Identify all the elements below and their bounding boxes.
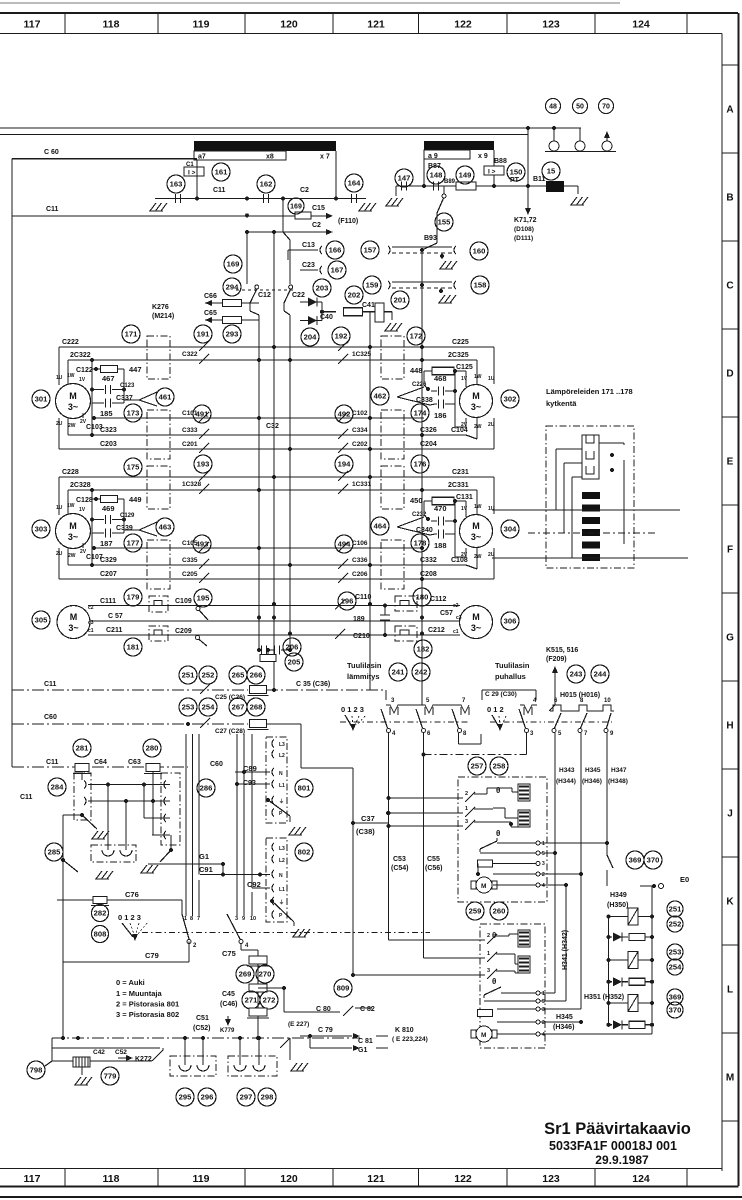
thermal steps <box>586 435 594 443</box>
circled ref 172 <box>407 327 425 345</box>
svg-text:F: F <box>727 545 733 556</box>
winding stem <box>184 1038 186 1065</box>
hook 801 E <box>272 796 274 804</box>
svg-text:C11: C11 <box>44 681 57 688</box>
wire motor bottom stub 2U <box>58 548 60 579</box>
svg-text:(E 227): (E 227) <box>288 1021 309 1028</box>
gate symbol <box>139 392 157 406</box>
svg-text:B: B <box>726 193 733 204</box>
svg-text:259: 259 <box>469 907 482 916</box>
circled ref 462 <box>371 387 389 405</box>
svg-text:118: 118 <box>103 1173 120 1185</box>
fuse stack 1 <box>249 956 267 964</box>
ruler tick bottom <box>64 1169 66 1187</box>
svg-text:123: 123 <box>542 19 560 31</box>
capacitor at 163 <box>175 194 177 203</box>
ground 801 <box>289 827 295 835</box>
contact slash mid <box>338 471 348 481</box>
svg-text:461: 461 <box>159 393 172 402</box>
thermal stepped rect <box>582 435 599 479</box>
svg-text:M: M <box>472 391 480 401</box>
fuse C27 <box>250 720 267 728</box>
row letter tick above G <box>722 592 739 594</box>
svg-text:x 7: x 7 <box>320 154 330 161</box>
svg-text:192: 192 <box>335 332 348 341</box>
thermal black bar 1 <box>582 492 600 499</box>
wire: C326 line right <box>336 434 466 436</box>
svg-text:(C38): (C38) <box>356 827 375 836</box>
socket 802 dashed box <box>266 838 287 922</box>
wire 802 N <box>200 874 270 876</box>
contactor dashed box upper-left <box>147 466 170 509</box>
svg-text:M: M <box>481 1032 486 1039</box>
svg-text:285: 285 <box>48 848 61 857</box>
row letter tick below M <box>722 1120 739 1122</box>
svg-text:8: 8 <box>190 916 193 922</box>
wire: bar1 right leg <box>335 151 337 199</box>
junction <box>245 197 249 201</box>
wire res right leg <box>454 370 466 372</box>
wire: C60 to right <box>266 723 301 725</box>
contact slash <box>199 573 209 583</box>
wire: C208 line right <box>336 578 494 580</box>
hook tl2 <box>84 797 86 805</box>
svg-text:121: 121 <box>367 1173 385 1185</box>
wire: C22 vertical lower <box>283 303 285 311</box>
svg-text:N: N <box>279 771 283 777</box>
contact slash mid <box>338 443 348 453</box>
contact slash mid <box>338 354 348 364</box>
wire: C11 control line <box>12 689 248 691</box>
ruler tick bottom <box>332 1169 334 1187</box>
ruler tick bottom <box>418 1169 420 1187</box>
svg-text:15: 15 <box>547 167 556 176</box>
bump C109 <box>151 601 166 606</box>
row letter tick above F <box>722 504 739 506</box>
circled ref 370 right <box>667 1002 683 1018</box>
svg-text:118: 118 <box>103 19 120 31</box>
svg-text:C123: C123 <box>120 383 135 389</box>
svg-text:462: 462 <box>374 392 387 401</box>
wire: 2C322 line <box>68 359 336 361</box>
svg-text:172: 172 <box>410 332 423 341</box>
thermal black bar 4 <box>582 529 600 536</box>
socket 801 blade <box>266 798 270 802</box>
svg-text:C201: C201 <box>182 441 198 448</box>
svg-text:2U: 2U <box>488 552 495 558</box>
wire: C111 line <box>88 605 460 607</box>
svg-text:C65: C65 <box>204 310 217 317</box>
contactor dashed box upper-mid <box>381 336 404 379</box>
border frame: top ruler line <box>0 12 738 14</box>
wire cap rail right <box>123 520 125 534</box>
svg-text:147: 147 <box>398 174 411 183</box>
svg-text:C125: C125 <box>456 364 473 371</box>
svg-text:C45: C45 <box>222 991 235 998</box>
svg-text:θ: θ <box>492 977 496 986</box>
svg-text:266: 266 <box>250 671 263 680</box>
hook 802 L2 <box>272 855 274 863</box>
svg-text:C2: C2 <box>312 222 321 229</box>
circled ref 201 <box>391 291 409 309</box>
wire: main top bus upper <box>0 127 581 129</box>
ruler tick top <box>244 13 246 34</box>
row letter tick above M <box>722 1032 739 1034</box>
bump C209 <box>151 630 166 635</box>
circled ref 252 <box>199 666 217 684</box>
svg-text:2: 2 <box>465 791 468 797</box>
contact slash <box>199 443 209 453</box>
svg-text:270: 270 <box>259 970 272 979</box>
capacitor 189 <box>380 614 390 616</box>
wire 189 vertical <box>384 606 386 616</box>
border frame: inner bottom line <box>0 1168 722 1170</box>
thermal wiring right <box>623 460 625 544</box>
wire res right leg <box>454 500 466 502</box>
svg-text:C51: C51 <box>196 1015 209 1022</box>
switch C12 <box>255 285 259 289</box>
svg-text:0 1 2 3: 0 1 2 3 <box>341 705 364 714</box>
capacitor r1 <box>431 520 437 522</box>
capacitor C337 <box>92 389 104 391</box>
fan2 term 3 <box>536 1007 540 1011</box>
svg-text:K276: K276 <box>152 304 169 311</box>
svg-text:M: M <box>481 883 486 890</box>
svg-text:kytkentä: kytkentä <box>546 399 577 408</box>
circled ref 158 <box>471 276 489 294</box>
fan1 term 4 <box>536 883 540 887</box>
circled ref 164 <box>345 174 363 192</box>
svg-text:C22: C22 <box>292 292 305 299</box>
svg-text:1C331: 1C331 <box>352 481 372 488</box>
svg-text:C210: C210 <box>353 633 370 640</box>
arrow C66 <box>205 300 212 306</box>
svg-text:1V: 1V <box>79 377 86 383</box>
wire H345 vertical <box>580 733 582 1009</box>
contact slash <box>199 429 209 439</box>
border frame: page bottom edge <box>0 1196 742 1198</box>
svg-text:K515, 516: K515, 516 <box>546 647 578 654</box>
transformer box 295/296 <box>170 1056 216 1076</box>
thermal black bar 5 <box>582 542 600 549</box>
circled ref 268 <box>247 698 265 716</box>
svg-text:369: 369 <box>629 856 642 865</box>
svg-text:c2: c2 <box>453 603 459 609</box>
svg-text:149: 149 <box>459 171 472 180</box>
svg-text:C206: C206 <box>352 571 368 578</box>
svg-text:C 29 (C30): C 29 (C30) <box>485 691 517 698</box>
svg-text:119: 119 <box>193 1173 210 1185</box>
baseline under lamp devices <box>545 151 616 153</box>
hook 802 E <box>272 897 274 905</box>
svg-text:I >: I > <box>188 170 196 177</box>
svg-text:306: 306 <box>504 617 517 626</box>
circled ref 163 <box>167 175 185 193</box>
capacitor at 148 <box>433 182 435 191</box>
svg-text:1W: 1W <box>474 374 482 380</box>
ground left of C11 <box>150 203 156 211</box>
svg-text:c2: c2 <box>88 605 94 611</box>
rect 206 box <box>260 655 276 662</box>
svg-text:1U: 1U <box>488 376 495 382</box>
svg-text:C 81: C 81 <box>358 1038 373 1045</box>
svg-text:120: 120 <box>280 19 298 31</box>
ladder diode+resistor rung y=981.8 <box>609 981 613 983</box>
svg-text:470: 470 <box>434 504 447 513</box>
svg-text:c3: c3 <box>456 615 462 621</box>
wire motor bottom stub 2W <box>67 418 69 435</box>
hook 801 L2 <box>272 750 274 758</box>
circled ref 253 <box>179 698 197 716</box>
circled ref 175 <box>124 458 142 476</box>
svg-text:272: 272 <box>263 996 276 1005</box>
svg-text:1V: 1V <box>79 507 86 513</box>
circled ref 303 <box>32 520 50 538</box>
contact slash mid <box>338 341 348 351</box>
wire K810 <box>300 1035 352 1037</box>
fan1 term 3 <box>536 862 540 866</box>
contactor dashed box lower-mid <box>381 410 404 459</box>
socket 802 blade <box>270 899 274 903</box>
vertical t3 <box>236 734 238 916</box>
wire: center vertical bus x=290 <box>289 315 291 650</box>
bus bar a7-x7 (black) <box>194 141 336 151</box>
svg-text:269: 269 <box>239 970 252 979</box>
circled ref 809 <box>334 979 352 997</box>
vertical t10 <box>251 734 253 888</box>
wire diode feeds <box>300 301 308 303</box>
svg-text:I >: I > <box>488 169 496 176</box>
wire from sw3 down <box>526 733 528 755</box>
circled ref 169 on fuse <box>288 198 304 214</box>
circled ref 195 <box>194 589 212 607</box>
wire after B11 <box>564 185 578 187</box>
wire: C11 horizontal <box>155 198 366 200</box>
wire 798 stub <box>45 1061 52 1066</box>
capacitor 206 <box>261 646 263 655</box>
fan2 comb wiring <box>508 934 510 936</box>
svg-text:0 1 2: 0 1 2 <box>487 705 504 714</box>
wire fan2 4 bottom <box>540 1033 652 1035</box>
svg-text:C23: C23 <box>302 262 315 269</box>
svg-text:181: 181 <box>127 643 140 652</box>
svg-text:C222: C222 <box>62 339 79 346</box>
junction <box>272 230 276 234</box>
wire: C204 line right <box>336 448 494 450</box>
svg-text:C13: C13 <box>302 242 315 249</box>
bus junction <box>368 563 372 567</box>
bus junction <box>368 602 372 606</box>
svg-text:241: 241 <box>392 668 405 677</box>
junction <box>320 310 324 314</box>
circled ref 205 <box>285 653 303 671</box>
svg-text:302: 302 <box>504 395 517 404</box>
svg-text:L1: L1 <box>279 783 285 789</box>
svg-text:(F209): (F209) <box>546 656 567 663</box>
dashed box C112 <box>395 596 417 611</box>
svg-text:809: 809 <box>337 984 350 993</box>
wire: switch 155 vertical bottom <box>436 213 438 243</box>
vertical t7 <box>198 734 200 875</box>
wire ground br <box>289 1052 291 1060</box>
ground 285b <box>96 871 102 879</box>
dashed box transformer contacts right <box>161 773 180 845</box>
wire stack branch <box>258 987 284 989</box>
svg-text:252: 252 <box>669 920 682 929</box>
fan2 feed 3 <box>353 974 485 976</box>
svg-text:B89: B89 <box>444 179 456 185</box>
svg-text:155: 155 <box>438 218 451 227</box>
circled ref 242 <box>412 663 430 681</box>
svg-text:254: 254 <box>669 963 682 972</box>
svg-text:268: 268 <box>250 703 263 712</box>
svg-text:C40: C40 <box>320 314 333 321</box>
svg-text:180: 180 <box>416 593 429 602</box>
circled ref 167 <box>328 261 346 279</box>
svg-text:122: 122 <box>454 1173 472 1185</box>
wire: bar1 left leg <box>196 160 198 199</box>
bus junction <box>272 475 276 479</box>
svg-text:2W: 2W <box>68 423 76 429</box>
svg-text:a 9: a 9 <box>428 153 438 160</box>
wire: B11 row <box>396 185 546 187</box>
circled ref 463 <box>156 518 174 536</box>
circled ref 169 at C12 <box>224 255 242 273</box>
junction 284b <box>282 986 286 990</box>
wire: C12 vertical upper <box>246 232 248 284</box>
wire motor bottom stub 2V <box>82 413 84 418</box>
hook 802 L3 <box>272 843 274 851</box>
svg-text:3~: 3~ <box>471 402 481 412</box>
ladder diode+resistor rung y=937 <box>609 936 613 938</box>
bus junction <box>420 345 424 349</box>
svg-text:3: 3 <box>487 968 490 974</box>
dashed mech link 3 <box>548 721 612 723</box>
svg-text:3~: 3~ <box>471 532 481 542</box>
svg-text:K272: K272 <box>135 1056 152 1063</box>
svg-text:5: 5 <box>542 999 545 1005</box>
H015 contacts <box>555 713 562 728</box>
selector fan3 <box>122 923 133 937</box>
svg-text:C131: C131 <box>456 494 473 501</box>
device circle under 70 <box>602 141 612 151</box>
gate symbol r <box>397 517 435 535</box>
wire C55 vertical <box>423 755 425 959</box>
svg-text:C108: C108 <box>451 557 468 564</box>
wire H341 vertical <box>565 885 567 1001</box>
svg-text:174: 174 <box>414 409 427 418</box>
svg-text:185: 185 <box>100 409 113 418</box>
svg-text:3 = Pistorasia 802: 3 = Pistorasia 802 <box>116 1010 179 1019</box>
svg-text:252: 252 <box>202 671 215 680</box>
svg-text:124: 124 <box>632 1173 650 1185</box>
wire C75 down <box>240 943 242 950</box>
svg-text:θ: θ <box>496 786 500 795</box>
circled ref 306 <box>501 612 519 630</box>
circled ref 259 <box>466 902 484 920</box>
wire: C102 line right <box>336 417 424 419</box>
ruler tick top <box>686 13 688 34</box>
svg-text:Tuulilasin: Tuulilasin <box>347 661 382 670</box>
resistor C65 <box>223 317 242 324</box>
circled ref 494 <box>335 535 353 553</box>
svg-text:C76: C76 <box>125 890 139 899</box>
svg-text:C66: C66 <box>204 293 217 300</box>
svg-text:305: 305 <box>35 616 48 625</box>
circled ref 294 <box>223 278 241 296</box>
svg-text:186: 186 <box>434 411 447 420</box>
svg-text:117: 117 <box>24 19 41 31</box>
wire: inner loop vertical top <box>476 490 478 515</box>
vertical x126 <box>125 801 127 850</box>
resistor 447 <box>101 366 118 373</box>
circled ref 15 <box>542 162 560 180</box>
wire: thermal row line 2 <box>528 532 658 534</box>
contact slash mid <box>338 573 348 583</box>
svg-text:C110: C110 <box>355 594 371 601</box>
circled ref 244 <box>591 665 609 683</box>
svg-text:173: 173 <box>127 409 140 418</box>
arrow K272 <box>126 1055 133 1061</box>
row letter tick above H <box>722 680 739 682</box>
svg-text:B11: B11 <box>533 176 546 183</box>
svg-text:494: 494 <box>338 540 351 549</box>
circled ref 148 <box>427 166 445 184</box>
svg-text:2: 2 <box>542 872 545 878</box>
svg-text:258: 258 <box>493 762 506 771</box>
fuse 169 on C15 <box>295 212 311 219</box>
circled ref 802 <box>295 843 313 861</box>
svg-text:1C328: 1C328 <box>182 481 202 488</box>
svg-text:194: 194 <box>338 460 351 469</box>
circled ref 270 <box>256 965 274 983</box>
junction <box>334 197 338 201</box>
svg-text:3~: 3~ <box>471 623 481 633</box>
svg-text:C203: C203 <box>100 441 117 448</box>
lämmitys contact bus <box>386 705 469 713</box>
svg-text:177: 177 <box>127 539 140 548</box>
hook 801 L1 <box>272 780 274 788</box>
svg-text:H349: H349 <box>610 892 627 899</box>
wire: C60 control line <box>12 723 248 725</box>
svg-text:C103: C103 <box>86 424 103 431</box>
fan1 feed 1 <box>389 812 464 814</box>
svg-text:1C325: 1C325 <box>352 351 372 358</box>
arrow C65 <box>205 317 212 323</box>
bus junction <box>257 416 261 420</box>
circled ref 179 <box>124 588 142 606</box>
fan2 bottom contact <box>484 987 501 995</box>
svg-text:175: 175 <box>127 463 140 472</box>
svg-text:48: 48 <box>549 104 557 111</box>
wire: C57 line <box>90 620 460 622</box>
svg-text:450: 450 <box>410 496 423 505</box>
wire y818 <box>144 817 170 819</box>
svg-text:117: 117 <box>24 1173 41 1185</box>
wire: C12 vertical lower <box>249 303 251 311</box>
bump C212 <box>397 630 414 635</box>
bus junction <box>420 616 424 620</box>
svg-text:124: 124 <box>632 19 650 31</box>
svg-text:253: 253 <box>669 948 682 957</box>
wire caps rail <box>454 371 456 425</box>
wire res left leg <box>424 500 432 502</box>
svg-text:159: 159 <box>366 281 379 290</box>
wire: drop to lämmitys switch <box>385 690 387 700</box>
wire: C11 line 216 <box>12 215 329 217</box>
fan2 term 1 <box>536 991 540 995</box>
svg-text:L2: L2 <box>279 753 285 759</box>
